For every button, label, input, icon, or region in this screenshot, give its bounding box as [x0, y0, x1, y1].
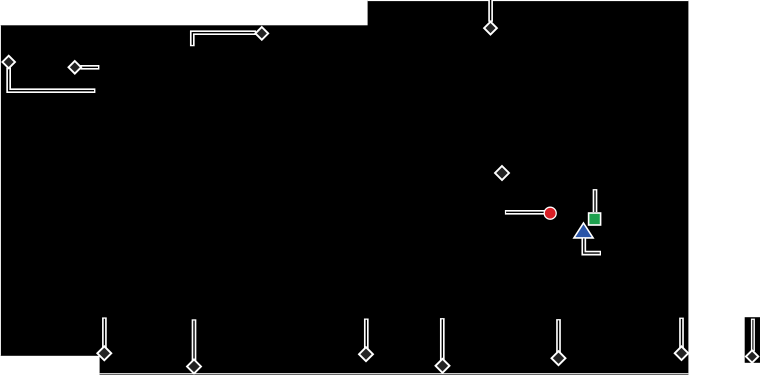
- black dock notch on right panel: [745, 317, 760, 363]
- node diamond D7: [187, 360, 201, 374]
- node diamond D8: [359, 347, 373, 361]
- wire W10 (bottom c): [364, 319, 369, 349]
- node diamond D9: [436, 359, 450, 373]
- wire W9 (bottom b): [192, 319, 197, 361]
- window bottom border: [100, 373, 689, 374]
- window left border: [0, 25, 2, 356]
- node diamond D1: [2, 56, 15, 69]
- marker M1 red circle: [544, 207, 556, 219]
- wire W13 (bottom f): [679, 318, 684, 348]
- wire W5 (stub left of red marker): [505, 210, 546, 215]
- wire W1 (left L-shape): [9, 68, 96, 91]
- wire W11 (bottom d): [440, 318, 445, 360]
- node diamond D5 (isolated): [495, 166, 509, 180]
- node diamond D6: [97, 346, 111, 360]
- wire W12 (bottom e): [556, 319, 561, 353]
- wire W14 (bottom g, inside notch): [751, 319, 755, 352]
- wire W8 (bottom a): [102, 317, 107, 348]
- wire W6 (above green marker): [593, 189, 598, 212]
- wire W4 (top middle vertical): [488, 0, 493, 22]
- white panel right: [688, 0, 760, 375]
- node diamond D11: [675, 346, 689, 360]
- node diamond D3: [255, 27, 268, 40]
- node diamond D10: [552, 351, 566, 365]
- wire W7 (below blue marker, L-shape): [584, 239, 601, 254]
- node diamond D12: [746, 350, 758, 362]
- node diamond D2: [69, 61, 82, 74]
- white panel top-left: [0, 0, 368, 25]
- wire W3 (top bracket wire): [192, 33, 256, 47]
- marker M2 green square: [589, 213, 601, 225]
- window top border: [368, 0, 689, 1]
- node diamond D4: [484, 22, 497, 35]
- white panel bottom-left: [0, 356, 100, 375]
- wire W2 (short stub right of D2): [81, 65, 100, 70]
- marker M3 blue triangle: [574, 223, 593, 238]
